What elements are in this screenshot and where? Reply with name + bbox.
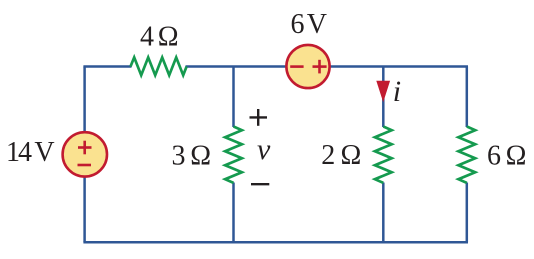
svg-text:v: v xyxy=(257,133,271,166)
resistor 2Ω (vertical zigzag) xyxy=(375,127,392,183)
voltage source V1 14V (circle) xyxy=(63,132,107,176)
svg-text:6 Ω: 6 Ω xyxy=(487,140,526,171)
svg-text:14 V: 14 V xyxy=(6,137,55,168)
V1 minus sign xyxy=(78,164,92,167)
wire: top side, left segment xyxy=(83,65,131,68)
polarity minus for v xyxy=(251,183,269,185)
wire: middle node vertical upper (top wire to 3Ω) xyxy=(232,67,235,128)
resistor 4Ω (horizontal zigzag) xyxy=(131,57,187,75)
wire: left vertical lower segment xyxy=(83,176,86,242)
V2 plus sign xyxy=(313,60,327,74)
wire: top side, middle segment (4Ω to 6V source) xyxy=(186,65,288,68)
wire: 2Ω branch vertical lower xyxy=(382,183,385,243)
wire: right vertical lower (6Ω to bottom) xyxy=(466,183,469,243)
wire: bottom side xyxy=(83,241,468,244)
wire: right vertical upper (to 6Ω) xyxy=(466,67,469,128)
svg-text:4 Ω: 4 Ω xyxy=(140,21,179,52)
svg-text:2 Ω: 2 Ω xyxy=(321,140,361,171)
wire: left vertical upper segment xyxy=(83,67,86,134)
svg-text:i: i xyxy=(393,75,401,108)
V1 plus sign xyxy=(78,141,92,155)
polarity plus for v xyxy=(250,109,268,126)
V2 minus sign xyxy=(290,65,303,68)
wire: top side, right segment (6V source to top-right corner) xyxy=(329,65,468,68)
svg-text:6 V: 6 V xyxy=(291,9,328,40)
resistor 3Ω (vertical zigzag) xyxy=(225,127,242,183)
voltage source V2 6V (circle) xyxy=(286,45,329,88)
wire: 2Ω branch vertical upper (with current i) xyxy=(382,67,385,128)
current arrow i (red, pointing down) xyxy=(376,81,390,102)
svg-text:3 Ω: 3 Ω xyxy=(172,140,212,171)
wire: middle node vertical lower (3Ω to bottom wire) xyxy=(232,183,235,243)
resistor 6Ω (vertical zigzag) xyxy=(458,127,475,183)
